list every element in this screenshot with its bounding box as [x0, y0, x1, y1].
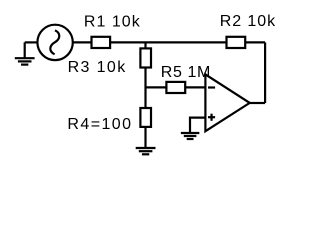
- wire feedback vertical: [264, 42, 266, 103]
- wire R1 to R2: [110, 41, 226, 43]
- resistor R4: [140, 108, 151, 127]
- ground (below R4): [136, 148, 156, 154]
- ground (left, at source): [15, 42, 35, 64]
- wire R3 to R4: [144, 68, 146, 109]
- resistor R3: [140, 48, 151, 67]
- svg-text:R2 10k: R2 10k: [220, 13, 276, 30]
- resistor R5: [166, 82, 185, 93]
- wire op-amp output: [250, 102, 265, 104]
- wire source to R1: [73, 41, 92, 43]
- op-amp U1: [205, 74, 249, 131]
- wire ground to source: [25, 41, 38, 43]
- ground (op-amp + input): [181, 133, 200, 139]
- source V1 (sine source): [37, 25, 72, 60]
- svg-text:R1 10k: R1 10k: [84, 13, 141, 30]
- svg-text:R5 1M: R5 1M: [161, 64, 211, 81]
- wire node to R5: [146, 86, 167, 88]
- resistor R2: [227, 37, 246, 48]
- op-amp minus sign: [208, 86, 215, 88]
- wire R4 to ground: [144, 127, 146, 148]
- wire R5 to op-amp inverting input: [185, 86, 205, 88]
- svg-text:R4=100: R4=100: [67, 116, 131, 133]
- svg-text:R3 10k: R3 10k: [68, 59, 127, 76]
- wire op-amp noninverting input to ground: [190, 118, 205, 133]
- op-amp plus sign: [208, 114, 215, 121]
- wire node down to R3: [144, 42, 146, 48]
- wire R2 right: [245, 41, 265, 43]
- resistor R1: [92, 37, 111, 48]
